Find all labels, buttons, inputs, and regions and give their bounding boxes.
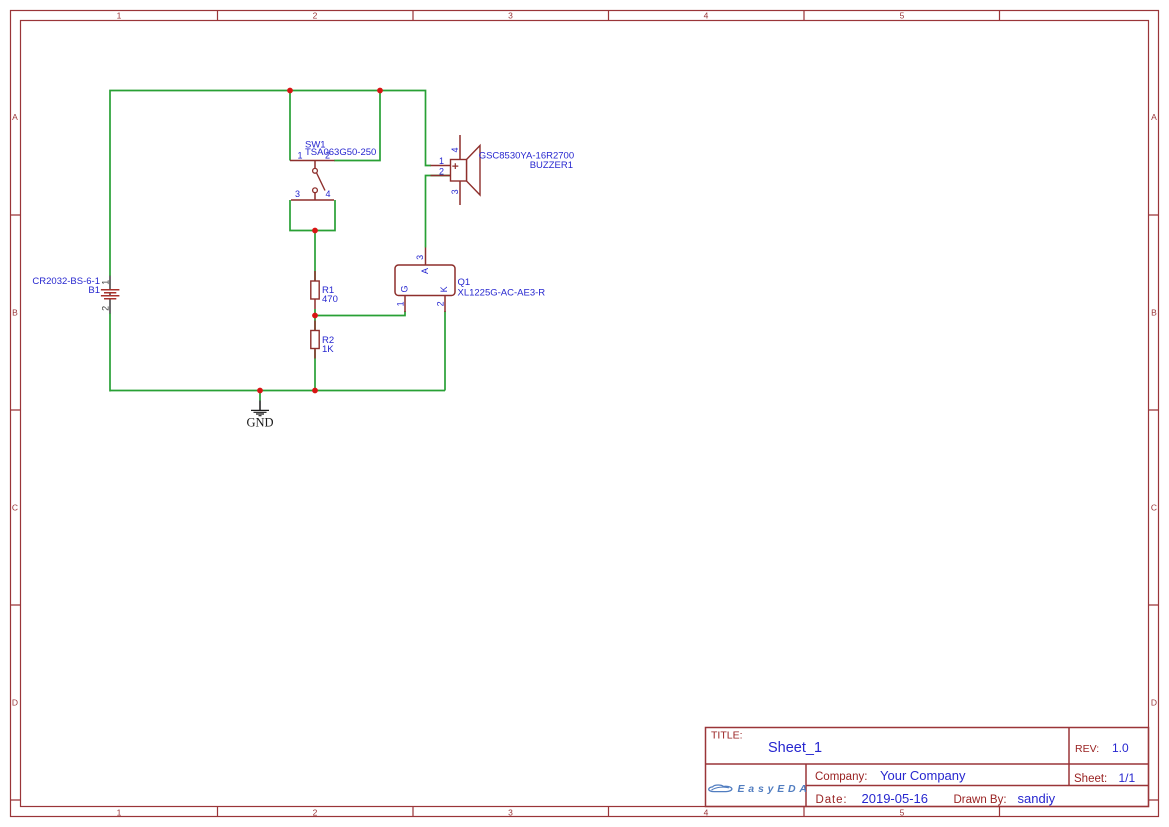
svg-text:1: 1: [297, 150, 302, 160]
svg-text:B: B: [1151, 308, 1157, 318]
svg-text:470: 470: [322, 294, 338, 305]
svg-text:Drawn By:: Drawn By:: [954, 794, 1007, 806]
svg-text:1: 1: [439, 156, 444, 166]
svg-text:1/1: 1/1: [1119, 771, 1136, 785]
svg-text:5: 5: [900, 11, 905, 21]
svg-text:3: 3: [295, 189, 300, 199]
svg-text:BUZZER1: BUZZER1: [530, 160, 573, 171]
svg-text:3: 3: [508, 11, 513, 21]
svg-text:D: D: [1151, 698, 1157, 708]
svg-text:A: A: [12, 112, 18, 122]
svg-text:C: C: [1151, 503, 1157, 513]
svg-text:1: 1: [395, 301, 405, 306]
switch SW1 TSA063G50-250: [290, 139, 376, 200]
svg-text:4: 4: [450, 147, 460, 152]
svg-text:2019-05-16: 2019-05-16: [862, 791, 929, 806]
EasyEDA logo: [709, 783, 811, 795]
svg-text:A: A: [420, 268, 430, 274]
svg-text:3: 3: [450, 189, 460, 194]
svg-text:4: 4: [325, 189, 330, 199]
svg-text:C: C: [12, 503, 18, 513]
svg-text:Your Company: Your Company: [880, 768, 966, 783]
svg-text:B: B: [12, 308, 18, 318]
svg-text:1: 1: [117, 11, 122, 21]
wire SW1 pin2 route: [334, 91, 380, 161]
thyristor Q1 XL1225G-AC-AE3-R: [395, 248, 545, 313]
junction dot: [377, 88, 383, 94]
resistor R1 470: [311, 271, 338, 309]
svg-text:GND: GND: [246, 415, 273, 429]
wire battery to gnd rail: [109, 313, 111, 392]
wire SW1 pin1 drop: [289, 91, 291, 161]
ground GND: [246, 401, 273, 430]
wire box to R1: [314, 231, 316, 282]
svg-text:Sheet_1: Sheet_1: [768, 740, 822, 756]
title text: [711, 730, 822, 757]
svg-text:4: 4: [704, 808, 709, 818]
svg-text:1: 1: [101, 280, 111, 285]
junction dot: [287, 88, 293, 94]
rev field: [1075, 741, 1129, 755]
svg-text:XL1225G-AC-AE3-R: XL1225G-AC-AE3-R: [458, 287, 546, 298]
svg-text:TSA063G50-250: TSA063G50-250: [305, 147, 376, 158]
svg-text:Company:: Company:: [815, 771, 867, 783]
junction dot: [312, 228, 318, 234]
svg-text:B1: B1: [88, 285, 100, 296]
wire buzzer pin2 to Q1 pin3: [426, 176, 451, 248]
svg-text:TITLE:: TITLE:: [711, 730, 743, 742]
sheet field: [1074, 771, 1136, 785]
svg-text:K: K: [439, 286, 449, 292]
company field: [815, 768, 966, 783]
svg-text:2: 2: [101, 306, 111, 311]
junction dot: [312, 388, 318, 394]
svg-text:Sheet:: Sheet:: [1074, 773, 1107, 785]
junction dot: [312, 313, 318, 319]
wire node to Q1 pin1: [315, 311, 405, 316]
svg-text:4: 4: [704, 11, 709, 21]
wire VCC top: [110, 91, 431, 277]
wire R2 to bottom: [314, 350, 316, 391]
svg-text:A: A: [1151, 112, 1157, 122]
date field: [816, 791, 1056, 806]
battery B1 CR2032-BS-6-1: [32, 276, 119, 314]
title block: [706, 728, 1149, 807]
wire SW1 lower box: [290, 200, 335, 231]
wire Q1 pin2 drop: [444, 311, 446, 391]
wire bottom GND rail: [110, 390, 445, 392]
svg-text:2: 2: [313, 808, 318, 818]
svg-text:sandiy: sandiy: [1018, 791, 1056, 806]
svg-text:3: 3: [508, 808, 513, 818]
resistor R2 1K: [311, 321, 334, 359]
svg-text:EasyEDA: EasyEDA: [738, 783, 811, 795]
svg-text:2: 2: [313, 11, 318, 21]
junction dot: [257, 388, 263, 394]
svg-text:5: 5: [900, 808, 905, 818]
svg-text:1.0: 1.0: [1112, 741, 1129, 755]
svg-text:REV:: REV:: [1075, 743, 1099, 755]
svg-text:3: 3: [415, 255, 425, 260]
svg-text:G: G: [399, 285, 409, 292]
buzzer BUZZER1 GSC8530YA-16R2700: [431, 135, 575, 205]
svg-text:D: D: [12, 698, 18, 708]
svg-text:1: 1: [117, 808, 122, 818]
svg-text:1K: 1K: [322, 344, 334, 355]
wire GND stub: [259, 391, 261, 401]
wire R1 to R2: [314, 309, 316, 331]
svg-text:Date:: Date:: [816, 794, 848, 806]
svg-text:2: 2: [439, 166, 444, 176]
svg-text:2: 2: [436, 301, 446, 306]
